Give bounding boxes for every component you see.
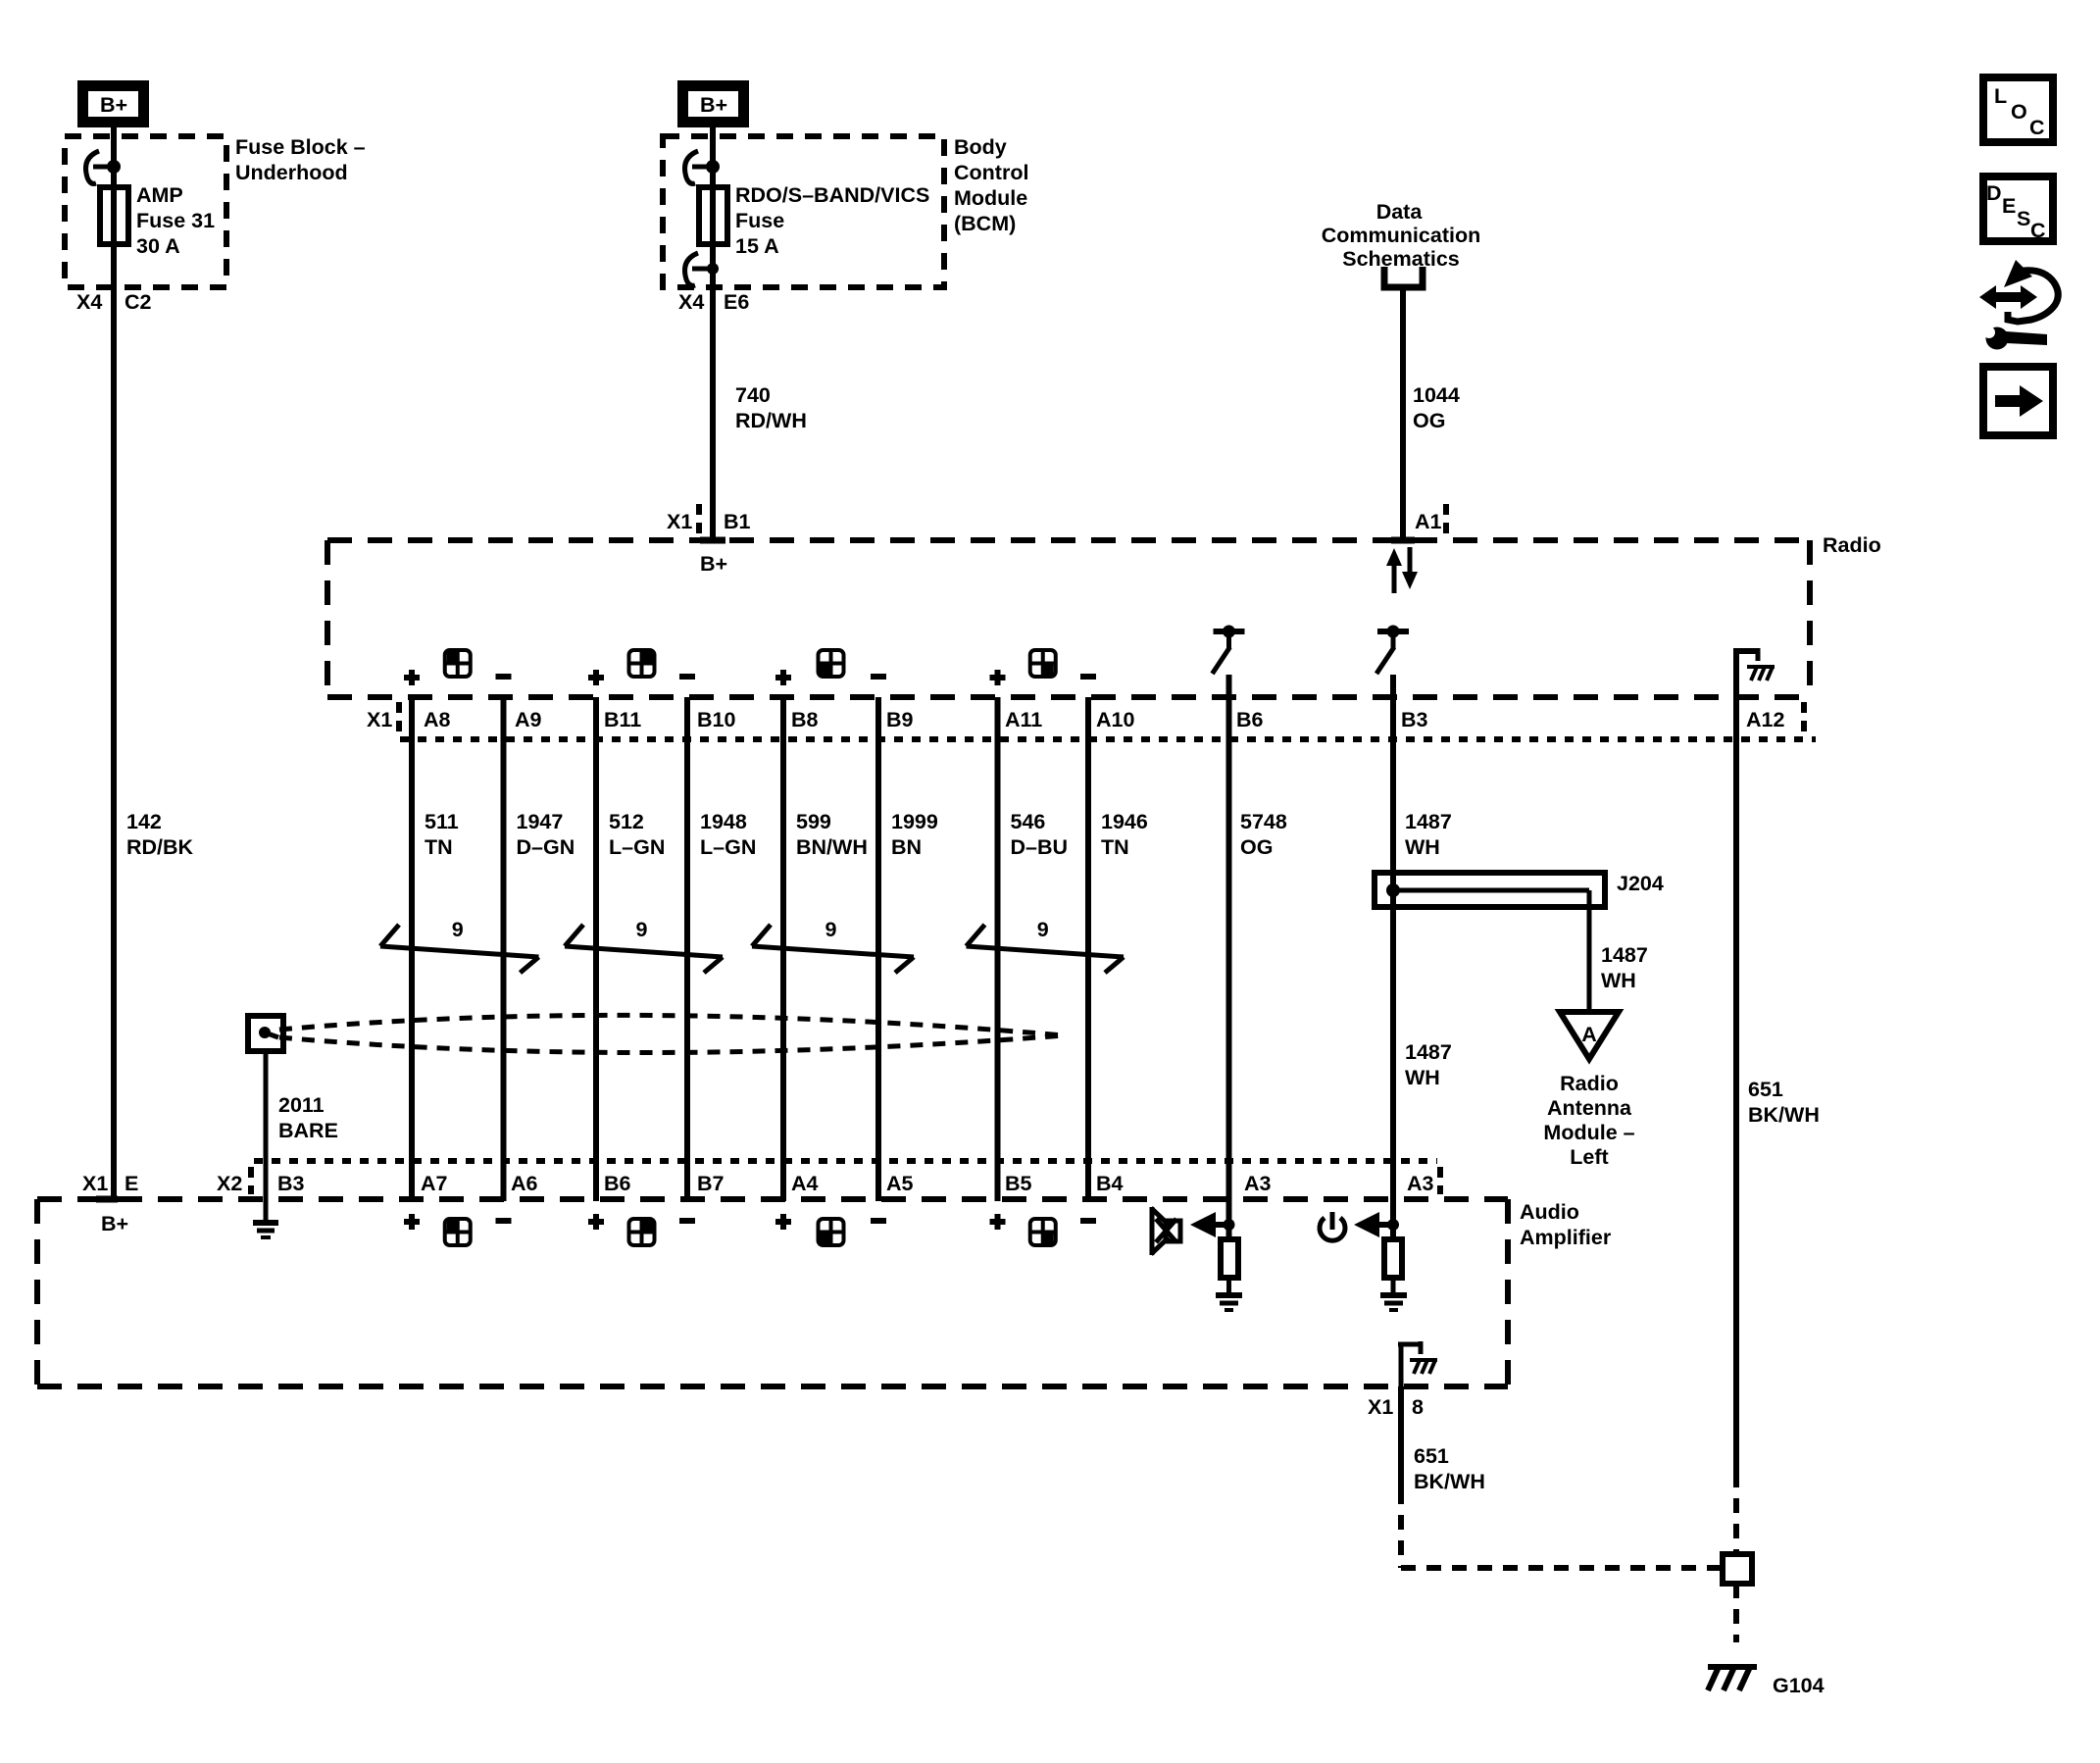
wire to ground (mute line) bbox=[1226, 1278, 1231, 1293]
svg-text:B5: B5 bbox=[1005, 1172, 1032, 1195]
svg-text:RD/BK: RD/BK bbox=[126, 835, 194, 859]
svg-text:9: 9 bbox=[636, 918, 648, 941]
fuse RDO/S-BAND/VICS 15A bbox=[699, 187, 727, 244]
off-page bracket symbol bbox=[1384, 267, 1423, 287]
svg-text:OG: OG bbox=[1413, 409, 1445, 432]
wire to ground (power control line) bbox=[1391, 1278, 1396, 1293]
wire 142 RD/BK (B+ feed to amplifier) bbox=[96, 127, 118, 1199]
connector hook symbol (fuse block internal) bbox=[86, 151, 100, 183]
wire 1044 label bbox=[1413, 383, 1460, 432]
switch symbol (mute control) bbox=[1213, 626, 1245, 675]
svg-text:A11: A11 bbox=[1005, 708, 1042, 731]
wire 546 D-BU bbox=[995, 697, 1001, 1201]
LOC reference box bbox=[1983, 77, 2053, 142]
svg-text:B3: B3 bbox=[277, 1172, 305, 1195]
power symbol (amplifier on/off) bbox=[1320, 1212, 1345, 1240]
svg-text:B11: B11 bbox=[604, 708, 641, 731]
svg-text:TN: TN bbox=[425, 835, 453, 859]
svg-text:X1: X1 bbox=[1368, 1395, 1393, 1419]
amplifier speaker input - (LR) bbox=[871, 1218, 886, 1224]
svg-text:Audio: Audio bbox=[1520, 1200, 1579, 1224]
svg-text:A8: A8 bbox=[424, 708, 451, 731]
speaker icon RR (amplifier) bbox=[1030, 1219, 1056, 1245]
svg-text:1947: 1947 bbox=[517, 810, 564, 833]
svg-text:RD/WH: RD/WH bbox=[735, 409, 807, 432]
svg-text:G104: G104 bbox=[1773, 1674, 1825, 1697]
power symbol B+ (fuse block feed) bbox=[83, 86, 144, 123]
wire 1948 L-GN bbox=[684, 697, 690, 1201]
Radio Antenna Module label bbox=[1543, 1072, 1634, 1169]
svg-text:OG: OG bbox=[1240, 835, 1273, 859]
svg-text:B+: B+ bbox=[100, 93, 127, 117]
svg-text:B1: B1 bbox=[724, 510, 751, 533]
junction dot bbox=[706, 160, 720, 174]
speaker icon RR (radio) bbox=[1030, 650, 1056, 677]
svg-text:B+: B+ bbox=[700, 552, 727, 576]
junction dot bbox=[107, 160, 121, 174]
fuse value label bbox=[735, 183, 929, 258]
svg-text:Underhood: Underhood bbox=[235, 161, 348, 184]
svg-text:E: E bbox=[125, 1172, 138, 1195]
svg-text:BK/WH: BK/WH bbox=[1414, 1470, 1485, 1493]
svg-text:Left: Left bbox=[1570, 1145, 1608, 1169]
Audio Amplifier component box bbox=[37, 1199, 1508, 1386]
separator dash X2 bbox=[248, 1167, 254, 1194]
svg-text:C2: C2 bbox=[125, 290, 152, 314]
resistor (mute line) bbox=[1221, 1239, 1238, 1278]
Audio Amplifier label bbox=[1520, 1200, 1612, 1249]
Body Control Module component box bbox=[663, 136, 944, 287]
svg-text:142: 142 bbox=[126, 810, 162, 833]
svg-text:Module: Module bbox=[954, 186, 1027, 210]
svg-text:C: C bbox=[2029, 116, 2045, 139]
separator dash bbox=[396, 702, 402, 735]
svg-text:RDO/S–BAND/VICS: RDO/S–BAND/VICS bbox=[735, 183, 929, 207]
splice J204 bbox=[1375, 873, 1605, 907]
svg-text:Fuse Block –: Fuse Block – bbox=[235, 135, 366, 159]
svg-text:8: 8 bbox=[1412, 1395, 1424, 1419]
amplifier speaker input + (LR) bbox=[775, 1214, 791, 1230]
wire 142 label bbox=[126, 810, 194, 859]
svg-text:1946: 1946 bbox=[1101, 810, 1148, 833]
svg-text:D–GN: D–GN bbox=[517, 835, 575, 859]
serial data up arrow bbox=[1386, 548, 1402, 593]
svg-text:D: D bbox=[1986, 181, 2002, 205]
amplifier pin X1 | E bbox=[82, 1172, 138, 1195]
dashed wire to splice (right) bbox=[1733, 1473, 1739, 1552]
svg-text:A1: A1 bbox=[1415, 510, 1442, 533]
svg-text:J204: J204 bbox=[1617, 872, 1664, 895]
antenna module connector triangle (A) bbox=[1560, 1012, 1619, 1059]
radio speaker output - (RF) bbox=[679, 674, 695, 680]
twisted pair symbol (RR, 9 twists) bbox=[967, 925, 1125, 973]
svg-text:1487: 1487 bbox=[1405, 1040, 1452, 1064]
wire 1946 label bbox=[1101, 810, 1148, 859]
svg-text:(BCM): (BCM) bbox=[954, 212, 1016, 235]
amplifier speaker input + (RF) bbox=[588, 1214, 604, 1230]
pin label X4 | E6 bbox=[678, 290, 749, 314]
svg-text:B6: B6 bbox=[1236, 708, 1264, 731]
svg-text:AMP: AMP bbox=[136, 183, 183, 207]
Data Communication Schematics label bbox=[1322, 200, 1480, 271]
forward arrow reference box bbox=[1983, 367, 2053, 435]
svg-text:E: E bbox=[2002, 194, 2016, 218]
svg-text:5748: 5748 bbox=[1240, 810, 1287, 833]
wire 511 TN bbox=[409, 697, 415, 1201]
power control arrow bbox=[1354, 1212, 1399, 1237]
svg-text:A6: A6 bbox=[511, 1172, 538, 1195]
svg-text:Amplifier: Amplifier bbox=[1520, 1226, 1612, 1249]
svg-text:Radio: Radio bbox=[1823, 533, 1881, 557]
wire 546 label bbox=[1011, 810, 1069, 859]
wire 5748 OG (mute signal) bbox=[1226, 675, 1232, 1239]
switch symbol (power control) bbox=[1376, 626, 1409, 675]
svg-text:Body: Body bbox=[954, 135, 1007, 159]
amplifier speaker input - (LF) bbox=[496, 1218, 512, 1224]
wire 740 RD/WH (BCM to radio B1) bbox=[700, 127, 725, 540]
svg-text:L–GN: L–GN bbox=[700, 835, 756, 859]
svg-text:9: 9 bbox=[825, 918, 837, 941]
svg-text:Fuse: Fuse bbox=[735, 209, 784, 232]
radio internal ground (A12) bbox=[1733, 648, 1775, 697]
svg-text:A12: A12 bbox=[1746, 708, 1784, 731]
wire 511 label bbox=[425, 810, 459, 859]
wire 1487 WH branch to antenna bbox=[1587, 890, 1592, 1012]
svg-text:L: L bbox=[1994, 84, 2007, 108]
amplifier speaker input - (RF) bbox=[679, 1218, 695, 1224]
svg-text:X1: X1 bbox=[367, 708, 392, 731]
svg-text:A7: A7 bbox=[421, 1172, 448, 1195]
svg-text:15 A: 15 A bbox=[735, 234, 779, 258]
connector hook symbol (top) bbox=[685, 151, 699, 183]
svg-text:2011: 2011 bbox=[278, 1093, 325, 1117]
wire 1487 label (upper) bbox=[1405, 810, 1452, 859]
svg-text:E6: E6 bbox=[724, 290, 749, 314]
wire 740 label bbox=[735, 383, 807, 432]
svg-text:X1: X1 bbox=[82, 1172, 108, 1195]
speaker icon RF (amplifier) bbox=[629, 1219, 655, 1245]
svg-text:X4: X4 bbox=[76, 290, 102, 314]
ground symbol (power control line) bbox=[1380, 1295, 1407, 1310]
amplifier internal chassis ground (to X1-8) bbox=[1398, 1341, 1437, 1386]
DESC reference box bbox=[1983, 176, 2053, 242]
svg-text:WH: WH bbox=[1601, 969, 1636, 992]
radio speaker output - (LF) bbox=[496, 674, 512, 680]
amplifier speaker input - (RR) bbox=[1080, 1218, 1096, 1224]
wire 1946 TN bbox=[1085, 697, 1091, 1201]
wire 1947 D-GN bbox=[501, 697, 507, 1201]
speaker icon RF (radio) bbox=[629, 650, 655, 677]
svg-text:Module –: Module – bbox=[1543, 1121, 1634, 1144]
svg-text:BARE: BARE bbox=[278, 1119, 338, 1142]
wire 651 BK/WH (radio ground lead) bbox=[1733, 697, 1739, 1473]
wire 1947 label bbox=[517, 810, 575, 859]
wire 512 L-GN bbox=[593, 697, 599, 1201]
svg-text:B3: B3 bbox=[1401, 708, 1428, 731]
fuse F31 (AMP Fuse 31 30A) bbox=[100, 187, 128, 244]
svg-text:BK/WH: BK/WH bbox=[1748, 1103, 1820, 1127]
serial data down arrow bbox=[1402, 547, 1418, 589]
wire 2011 BARE (drain) bbox=[264, 1051, 269, 1220]
svg-text:BN: BN bbox=[891, 835, 922, 859]
svg-text:Fuse 31: Fuse 31 bbox=[136, 209, 215, 232]
radio speaker output + (RR) bbox=[990, 670, 1006, 685]
wire 651 label (radio side) bbox=[1748, 1078, 1820, 1127]
wire 1999 BN bbox=[875, 697, 881, 1201]
radio speaker output - (RR) bbox=[1080, 674, 1096, 680]
power symbol B+ (BCM feed) bbox=[683, 86, 744, 123]
svg-text:A5: A5 bbox=[886, 1172, 914, 1195]
speaker icon LR (radio) bbox=[819, 650, 844, 677]
wire 599 label bbox=[796, 810, 868, 859]
amplifier pin X1 | 8 bbox=[1368, 1395, 1424, 1419]
svg-text:A: A bbox=[1581, 1023, 1597, 1046]
Body Control Module label bbox=[954, 135, 1028, 235]
svg-text:A3: A3 bbox=[1407, 1172, 1434, 1195]
twisted pair symbol (RF, 9 twists) bbox=[565, 925, 723, 973]
Radio component box bbox=[327, 540, 1810, 697]
svg-text:651: 651 bbox=[1748, 1078, 1783, 1101]
radio speaker output + (RF) bbox=[588, 670, 604, 685]
svg-text:B8: B8 bbox=[791, 708, 819, 731]
ground G104 symbol bbox=[1708, 1667, 1757, 1690]
svg-text:B+: B+ bbox=[101, 1212, 128, 1235]
svg-text:1044: 1044 bbox=[1413, 383, 1460, 407]
wire 1999 label bbox=[891, 810, 938, 859]
svg-text:599: 599 bbox=[796, 810, 831, 833]
dashed wire to splice bbox=[1401, 1489, 1721, 1568]
amplifier speaker input + (RR) bbox=[990, 1214, 1006, 1230]
wire 1044 OG (serial data) bbox=[1391, 287, 1415, 540]
radio speaker output + (LF) bbox=[404, 670, 420, 685]
resistor (power control line) bbox=[1384, 1239, 1402, 1278]
mute speaker icon bbox=[1151, 1207, 1180, 1255]
svg-text:Antenna: Antenna bbox=[1547, 1096, 1632, 1120]
wire 1487 WH (power control) bbox=[1390, 675, 1396, 1239]
pin label X4 | C2 bbox=[76, 290, 152, 314]
svg-text:X1: X1 bbox=[667, 510, 692, 533]
svg-text:X2: X2 bbox=[217, 1172, 242, 1195]
svg-text:1999: 1999 bbox=[891, 810, 938, 833]
svg-text:Schematics: Schematics bbox=[1342, 247, 1460, 271]
separator dash X1/B1 bbox=[696, 504, 702, 536]
ground splice connector box bbox=[1723, 1554, 1752, 1584]
svg-text:D–BU: D–BU bbox=[1011, 835, 1069, 859]
speaker icon LR (amplifier) bbox=[819, 1219, 844, 1245]
radio speaker output + (LR) bbox=[775, 670, 791, 685]
connector hook symbol (bottom) bbox=[685, 253, 699, 285]
mute arrow bbox=[1190, 1212, 1235, 1237]
svg-text:TN: TN bbox=[1101, 835, 1129, 859]
svg-text:BN/WH: BN/WH bbox=[796, 835, 868, 859]
wire 651 BK/WH (amp ground lead) bbox=[1398, 1386, 1404, 1489]
separator dash A12 bbox=[1801, 702, 1807, 735]
svg-text:A3: A3 bbox=[1244, 1172, 1272, 1195]
svg-text:A9: A9 bbox=[515, 708, 542, 731]
speaker icon LF (amplifier) bbox=[445, 1219, 471, 1245]
ground symbol (drain wire) bbox=[253, 1223, 278, 1237]
wiring repair reference icon (arrows and wrench) bbox=[1979, 260, 2058, 350]
svg-text:B+: B+ bbox=[700, 93, 727, 117]
shield splice box bbox=[248, 1016, 283, 1051]
twisted pair symbol (LR, 9 twists) bbox=[752, 925, 914, 973]
ground symbol (mute line) bbox=[1216, 1295, 1242, 1310]
amplifier speaker input + (LF) bbox=[404, 1214, 420, 1230]
wire 5748 label bbox=[1240, 810, 1287, 859]
svg-text:9: 9 bbox=[1037, 918, 1049, 941]
wire 1948 label bbox=[700, 810, 756, 859]
svg-text:546: 546 bbox=[1011, 810, 1046, 833]
svg-text:S: S bbox=[2017, 207, 2030, 230]
dashed wire to G104 bbox=[1733, 1584, 1739, 1642]
svg-text:A4: A4 bbox=[791, 1172, 819, 1195]
svg-text:Control: Control bbox=[954, 161, 1028, 184]
wire stub to fuse bbox=[93, 165, 114, 170]
svg-text:Data: Data bbox=[1376, 200, 1424, 224]
svg-text:WH: WH bbox=[1405, 1066, 1440, 1089]
svg-text:C: C bbox=[2030, 219, 2046, 242]
svg-text:A10: A10 bbox=[1096, 708, 1134, 731]
shield ellipse (dashed) bbox=[279, 1015, 1064, 1052]
svg-text:30 A: 30 A bbox=[136, 234, 180, 258]
svg-text:651: 651 bbox=[1414, 1444, 1449, 1468]
wire 1487 branch label bbox=[1601, 943, 1648, 992]
svg-text:1948: 1948 bbox=[700, 810, 747, 833]
radio speaker output - (LR) bbox=[871, 674, 886, 680]
wire 1487 label (lower) bbox=[1405, 1040, 1452, 1089]
radio pin X1 | B1 bbox=[667, 510, 751, 533]
svg-text:1487: 1487 bbox=[1405, 810, 1452, 833]
Fuse Block - Underhood label bbox=[235, 135, 366, 184]
svg-text:X4: X4 bbox=[678, 290, 704, 314]
svg-text:Communication: Communication bbox=[1322, 224, 1480, 247]
twisted pair symbol (LF, 9 twists) bbox=[380, 925, 539, 973]
svg-text:L–GN: L–GN bbox=[609, 835, 665, 859]
wire 599 BN/WH bbox=[780, 697, 786, 1201]
svg-text:O: O bbox=[2011, 100, 2027, 124]
svg-text:511: 511 bbox=[425, 810, 459, 833]
wire 512 label bbox=[609, 810, 665, 859]
amplifier pin X2 | B3 bbox=[217, 1172, 305, 1195]
fuse F31 value label bbox=[136, 183, 215, 258]
wire 651 label (amp side) bbox=[1414, 1444, 1485, 1493]
svg-text:B7: B7 bbox=[697, 1172, 725, 1195]
svg-text:740: 740 bbox=[735, 383, 771, 407]
radio connector strip (dotted) bbox=[400, 736, 1816, 742]
svg-text:1487: 1487 bbox=[1601, 943, 1648, 967]
svg-text:Radio: Radio bbox=[1560, 1072, 1619, 1095]
svg-text:9: 9 bbox=[452, 918, 464, 941]
amplifier connector strip (dotted) bbox=[254, 1158, 1437, 1164]
Fuse Block - Underhood component box bbox=[65, 136, 226, 287]
svg-text:WH: WH bbox=[1405, 835, 1440, 859]
svg-text:B6: B6 bbox=[604, 1172, 631, 1195]
svg-text:B10: B10 bbox=[697, 708, 735, 731]
svg-text:B9: B9 bbox=[886, 708, 914, 731]
svg-text:B4: B4 bbox=[1096, 1172, 1124, 1195]
wire 2011 label bbox=[278, 1093, 338, 1142]
separator dash A3 bbox=[1437, 1167, 1443, 1194]
separator dash A1 bbox=[1443, 504, 1449, 536]
svg-text:512: 512 bbox=[609, 810, 644, 833]
speaker icon LF (radio) bbox=[445, 650, 471, 677]
